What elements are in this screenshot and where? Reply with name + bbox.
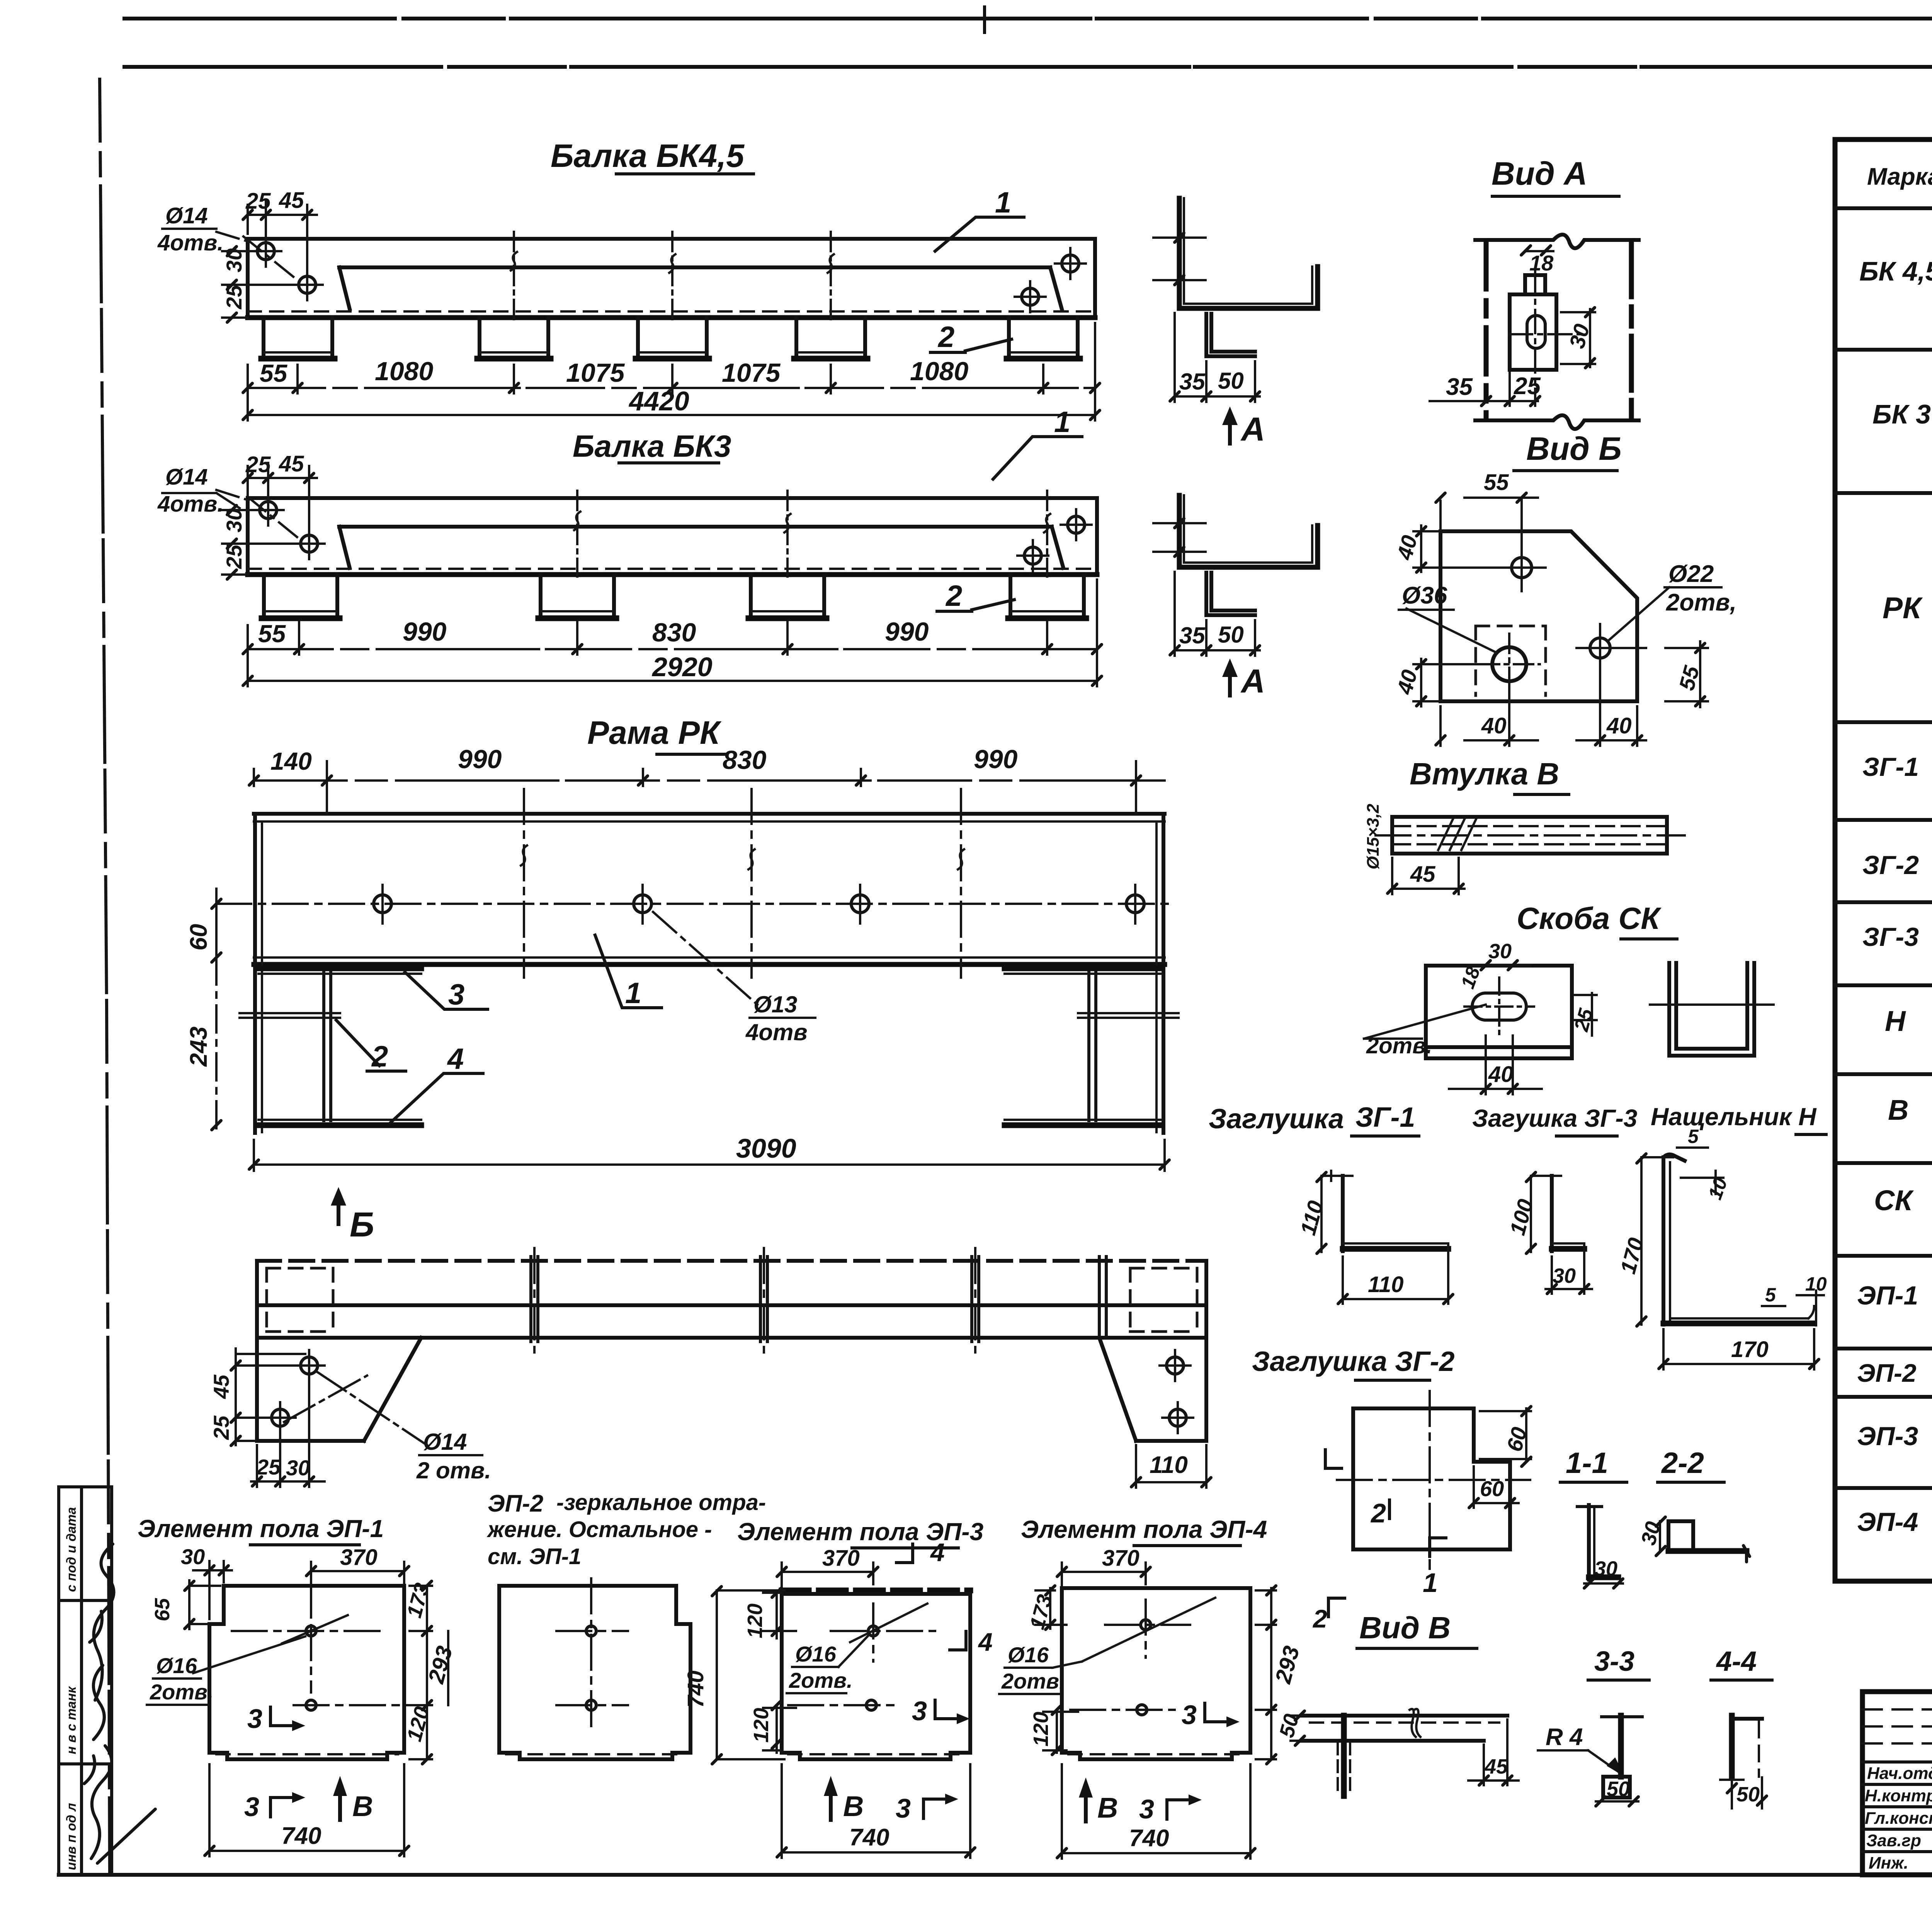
svg-text:ЭП-4: ЭП-4 [1857,1507,1918,1537]
svg-text:55: 55 [260,359,288,387]
svg-text:1080: 1080 [375,357,433,386]
RK dim chain 140 990 830 990 top [254,779,1165,782]
RK hole no.1 [374,895,391,913]
left stamp strip signature scrawl [94,1544,114,1700]
view A small tab above [1525,275,1545,294]
RK bottom right corner plate [1099,1338,1206,1441]
svg-text:3: 3 [244,1792,259,1822]
svg-text:2920: 2920 [651,652,713,682]
tab 2 pos.2 no.4 [796,318,865,356]
svg-text:25: 25 [222,285,246,310]
svg-text:2: 2 [1370,1498,1386,1528]
svg-text:Ø22: Ø22 [1668,561,1714,587]
RK label f13 4otv leader [653,912,757,1005]
view A top edge with break [1475,235,1639,248]
svg-text:ЭП-3: ЭП-3 [1857,1422,1918,1451]
svg-text:ЭП-2: ЭП-2 [488,1490,543,1517]
svg-text:Ø14: Ø14 [165,464,208,490]
RK bottom right inner dashed pocket [1130,1268,1197,1332]
svg-text:ЭП-1: ЭП-1 [1857,1281,1918,1310]
section 3-3 tee [1618,1716,1624,1777]
RK section arrow B [337,1197,340,1224]
svg-text:40: 40 [1606,713,1632,738]
channel tab Z below [1206,314,1255,356]
EP-3 hole upper [868,1626,878,1636]
sheet left border line [100,79,110,1875]
svg-text:45: 45 [1410,862,1435,887]
svg-text:Втулка В: Втулка В [1410,757,1559,791]
signature table row lines [1862,1762,1932,1852]
RK left splice tick [240,1013,340,1018]
cap ZG-2 section mark 2 left [1325,1450,1342,1468]
EP-4 right dim chain 293 [1256,1588,1276,1759]
svg-text:830: 830 [723,745,767,775]
view A bottom edge with break [1475,415,1639,429]
svg-text:В: В [352,1790,373,1822]
EP-4 hole upper [1141,1620,1151,1630]
RK dim 243 left [215,957,218,1130]
EP-3 hole lower [866,1700,876,1710]
svg-text:740: 740 [683,1670,708,1708]
cap ZG-1 angle [1341,1176,1345,1251]
svg-text:инв п од л: инв п од л [64,1803,79,1870]
view V hatch leg [1341,1716,1347,1796]
skoba SK slot [1472,993,1526,1020]
tab 2 pos.2 no.2 [480,318,548,356]
sleeve V hatch [1438,819,1476,850]
svg-text:Инж.: Инж. [1869,1854,1908,1872]
svg-text:35: 35 [1179,369,1206,395]
svg-text:Ø16: Ø16 [1008,1643,1049,1667]
svg-text:55: 55 [1484,470,1509,495]
sheet bottom inner line [59,1873,1932,1877]
cap ZG-3 angle [1550,1176,1554,1251]
svg-text:45: 45 [209,1374,233,1399]
RK vertical center ticks above top [327,789,1136,814]
svg-text:120: 120 [750,1708,773,1743]
svg-text:ЗГ-3: ЗГ-3 [1862,922,1919,952]
svg-text:Ø13: Ø13 [753,992,797,1017]
svg-text:5: 5 [1765,1284,1776,1306]
svg-text:Ø14: Ø14 [165,203,208,228]
view A center cross [1509,270,1586,390]
RK label 1 leader [595,935,662,1008]
RK hole no.2 [634,895,651,913]
RK right bottom plate pos.4 [1005,1122,1161,1128]
RK right splice tick [1078,1013,1179,1018]
RK rail bottom band [254,956,1165,959]
svg-text:25: 25 [1514,373,1541,400]
svg-text:35: 35 [1446,374,1473,400]
RK bottom left inner dashed pocket [267,1268,333,1332]
svg-text:2-2: 2-2 [1661,1447,1704,1480]
svg-text:740: 740 [1129,1825,1169,1852]
hole left upper [257,243,274,260]
dim 35 50 under section [1175,313,1260,402]
table header bottom line [1835,206,1932,210]
RK bottom leader f14 2otv [284,1372,427,1445]
svg-text:Гл.конст: Гл.конст [1865,1809,1932,1828]
svg-text:A: A [1240,663,1265,700]
svg-text:Н.контр: Н.контр [1865,1786,1932,1805]
view A slot [1527,325,1545,339]
view A dim 30 right [1561,309,1595,367]
svg-text:55: 55 [258,620,286,648]
svg-text:см. ЭП-1: см. ЭП-1 [488,1544,581,1569]
svg-text:СК: СК [1874,1184,1914,1216]
svg-text:50: 50 [1218,622,1244,648]
view A left flange bar [1484,243,1489,418]
dim 4420 [248,323,1095,420]
channel section of BK4,5 (view A) [1179,198,1318,308]
svg-text:с под и дата: с под и дата [64,1507,79,1592]
svg-text:Н: Н [1885,1005,1906,1037]
flashing N profile [1662,1157,1665,1325]
svg-text:БК 4,5: БК 4,5 [1859,256,1932,286]
svg-text:3: 3 [1182,1700,1197,1730]
beam BK4,5 web inner line [339,267,1062,309]
svg-text:50: 50 [1607,1777,1630,1801]
view B big hole f36 [1492,647,1526,681]
svg-text:830: 830 [652,618,696,647]
svg-text:Ø36: Ø36 [1402,582,1447,609]
svg-text:В: В [843,1790,864,1822]
RK label 3 leader [405,972,488,1009]
svg-text:50: 50 [1736,1783,1760,1806]
RK vertical chain line 2 with break [750,789,753,978]
svg-text:4: 4 [978,1628,993,1656]
left stamp strip date scrawl [84,1746,155,1863]
beam BK3 bottom flange [248,572,1097,577]
svg-text:30: 30 [1594,1557,1617,1580]
RK left column tube [324,970,331,1121]
svg-text:65: 65 [151,1598,174,1621]
svg-text:140: 140 [270,747,312,775]
BK3 dim 2920 [248,580,1097,686]
svg-text:Ø14: Ø14 [423,1429,467,1455]
hole leader diagonal [216,232,298,280]
svg-text:30: 30 [222,509,246,532]
EP-4 hole lower [1137,1705,1147,1715]
svg-text:990: 990 [458,745,502,774]
svg-text:2отв.: 2отв. [789,1668,853,1692]
svg-text:4: 4 [447,1043,464,1075]
view B leader f36 [1406,609,1497,653]
section 4-4 channel [1729,1716,1735,1777]
svg-text:-зеркальное отра-: -зеркальное отра- [556,1490,766,1515]
view B dim 40 left lower [1413,659,1492,706]
RK hole center chain line [216,903,1175,905]
RK dim 60 left [215,889,218,970]
svg-text:120: 120 [743,1604,767,1638]
svg-text:ЗГ-2: ЗГ-2 [1862,850,1919,880]
svg-text:110: 110 [1150,1452,1188,1478]
tab 2 pos.2 no.5 [1009,318,1078,356]
BK3 tab no.3 [751,575,824,616]
view B hole f22 [1590,638,1610,658]
svg-text:Элемент пола ЭП-3: Элемент пола ЭП-3 [737,1518,983,1546]
svg-text:3: 3 [247,1704,262,1734]
section 1-1 angle [1587,1505,1591,1580]
svg-text:1: 1 [625,977,641,1010]
BK3 section arrow A [1228,668,1232,696]
RK hole no.3 [851,895,869,913]
cap ZG-3 dim 100 [1531,1176,1561,1252]
svg-text:Марка: Марка [1867,163,1932,190]
BK3 tab no.1 [264,575,337,616]
svg-text:Ø16: Ø16 [156,1653,197,1678]
RK bottom left corner plate [257,1338,421,1441]
view V band [1301,1716,1507,1741]
svg-text:740: 740 [849,1824,889,1851]
svg-text:1: 1 [995,186,1011,219]
svg-text:Заглушка: Заглушка [1209,1104,1344,1134]
svg-text:Нач.отд.: Нач.отд. [1867,1764,1932,1783]
svg-text:4отв.: 4отв. [157,492,223,517]
svg-text:4отв.: 4отв. [157,230,223,255]
EP-2 hole lower [586,1700,596,1710]
skoba SK dim 25 right [1575,993,1597,1036]
svg-text:Элемент пола ЭП-4: Элемент пола ЭП-4 [1021,1515,1267,1543]
skoba SK plate [1426,966,1572,1058]
RK left top plate pos.3 [259,966,421,971]
svg-text:Б: Б [350,1206,374,1244]
EP-1 view arrow V [338,1787,342,1820]
BK3 hole leader diagonal [216,490,299,539]
svg-text:243: 243 [185,1027,212,1067]
view B dashed pocket [1476,626,1546,696]
tab 2 pos.2 no.1 [264,318,332,356]
svg-text:50: 50 [1218,368,1244,394]
svg-text:Элемент пола ЭП-1: Элемент пола ЭП-1 [138,1515,384,1543]
BK3 dim chain 55 990 830 990 [248,648,1097,650]
svg-text:4420: 4420 [628,386,689,416]
BK3 hole left lower [301,535,318,552]
svg-text:1080: 1080 [910,357,968,386]
svg-text:R 4: R 4 [1546,1724,1583,1750]
view A right flange bar [1629,243,1634,418]
hole right lower [1022,288,1039,305]
beam BK4,5 outline [248,239,1095,318]
svg-text:РК: РК [1883,591,1923,625]
RK vertical chain line 1 with break [523,789,525,978]
beam BK3 outline [248,498,1097,575]
view A inner plate [1510,294,1556,370]
svg-text:1-1: 1-1 [1566,1447,1608,1480]
RK vertical chain line 3 with break [960,789,962,978]
RK right column tube [1089,970,1096,1121]
RK right top plate pos.3 [1005,966,1161,971]
skoba SK U-profile [1669,963,1754,1056]
sleeve V body [1392,817,1667,854]
svg-text:4: 4 [930,1538,945,1566]
cap ZG-2 dim 60 vertical [1480,1408,1531,1462]
BK3 channel tab Z below [1206,573,1255,615]
svg-text:120: 120 [1029,1712,1053,1747]
EP-3 plate outline [782,1588,970,1594]
RK bottom weld ticks [531,1257,1106,1342]
svg-text:В: В [1097,1792,1118,1824]
view B leader f22 [1607,587,1669,641]
svg-text:170: 170 [1731,1337,1769,1362]
svg-text:Скоба СК: Скоба СК [1517,901,1662,935]
section 2-2 channel [1668,1521,1693,1551]
svg-text:40: 40 [1488,1062,1514,1087]
svg-text:Заглушка ЗГ-2: Заглушка ЗГ-2 [1252,1346,1455,1377]
RK bottom dim 110 right [1136,1445,1206,1488]
svg-text:25: 25 [245,189,271,214]
section 2-2 dim 30 [1659,1521,1661,1551]
view B plate outline [1440,531,1637,701]
cap ZG-1 dim 110 vertical [1321,1171,1352,1252]
RK right leg [1162,814,1165,1133]
svg-text:1: 1 [1054,406,1070,439]
svg-text:4отв: 4отв [745,1019,808,1045]
left stamp strip outline [59,1487,112,1875]
BK3 tab no.4 [1010,575,1084,616]
beam BK4,5 segment joint lines [514,232,831,319]
tab 2 pos.2 no.3 [638,318,707,356]
svg-text:Вид В: Вид В [1359,1611,1451,1645]
svg-text:2: 2 [945,580,962,612]
svg-text:990: 990 [403,617,447,646]
svg-text:ЗГ-1: ЗГ-1 [1862,752,1919,782]
EP-1 hole lower [306,1700,316,1710]
svg-text:Ø16: Ø16 [795,1642,837,1666]
svg-text:30: 30 [1488,940,1512,963]
svg-text:Ø15×3,2: Ø15×3,2 [1364,803,1383,869]
view B hole top [1512,558,1532,578]
svg-text:60: 60 [185,924,212,951]
view B dim 40 left upper [1413,526,1511,572]
RK bottom plate hole right upper [1167,1357,1184,1374]
svg-text:5: 5 [1688,1126,1699,1147]
svg-text:3: 3 [912,1696,927,1726]
svg-text:4-4: 4-4 [1716,1646,1757,1677]
RK bottom view right edge [1204,1261,1208,1441]
RK label 2 leader [336,1020,406,1071]
svg-text:2: 2 [371,1040,388,1073]
svg-text:3090: 3090 [736,1133,796,1163]
RK bottom plate hole left upper [301,1357,318,1374]
RK dim 3090 [254,1140,1165,1171]
svg-text:2отв.: 2отв. [150,1680,214,1704]
svg-text:Загушка ЗГ-3: Загушка ЗГ-3 [1472,1104,1637,1132]
svg-text:2: 2 [937,321,954,354]
svg-text:25: 25 [209,1415,233,1440]
EP-2 hole upper [586,1626,596,1636]
view V dim 50 left [1291,1716,1306,1741]
svg-text:110: 110 [1368,1272,1403,1297]
EP-1 hole upper [306,1626,316,1636]
EP-3 view arrow V [829,1787,833,1820]
RK top rail band [254,812,1165,816]
hole left lower [299,276,316,293]
RK bottom view left edge [255,1261,259,1441]
sheet outer top line [124,17,1932,20]
svg-text:2отв,: 2отв, [1666,589,1736,616]
RK bottom view band bottom line [257,1336,1206,1340]
RK hole no.4 [1126,895,1144,913]
beam BK4,5 bottom flange [248,315,1095,320]
svg-text:45: 45 [279,188,304,213]
EP-1 right dim chain 173 293 120 [410,1586,432,1759]
svg-text:30: 30 [181,1544,205,1569]
EP-1 plate outline [209,1586,404,1759]
svg-text:A: A [1240,411,1265,448]
svg-text:3: 3 [448,978,464,1011]
svg-text:990: 990 [885,617,929,646]
signature table dashed top rows [1862,1709,1932,1743]
beam BK3 segment joint lines [577,491,1047,577]
BK3 hole right lower [1024,547,1041,564]
svg-text:ЗГ-1: ЗГ-1 [1355,1102,1415,1133]
flashing N dim 10 top [1681,1171,1723,1194]
svg-text:740: 740 [281,1823,321,1849]
svg-text:2: 2 [1312,1604,1327,1633]
svg-text:370: 370 [822,1546,860,1571]
svg-text:35: 35 [1179,622,1206,648]
BK3 tab no.2 [541,575,614,616]
RK left bottom plate pos.4 [259,1122,421,1128]
EP-4 view arrow V [1084,1789,1088,1821]
svg-text:Вид Б: Вид Б [1526,430,1622,467]
RK left leg [253,814,257,1133]
svg-text:1075: 1075 [722,358,781,388]
RK bottom view band top dashed edge [257,1259,1206,1263]
svg-text:370: 370 [340,1545,378,1570]
svg-text:Балка БК4,5: Балка БК4,5 [551,138,745,174]
svg-text:Нащельник Н: Нащельник Н [1651,1103,1817,1131]
svg-text:3-3: 3-3 [1594,1646,1634,1677]
BK3 hole left upper [260,502,277,519]
BK3 dim 35 50 under section [1175,572,1260,656]
svg-text:Вид А: Вид А [1492,155,1587,192]
EP-1 leader f16 2otv [193,1636,305,1673]
RK bottom vertical chain lines [534,1248,975,1352]
svg-text:1075: 1075 [566,358,625,388]
view V break mark [1410,1709,1420,1737]
svg-text:1: 1 [1423,1568,1438,1598]
RK bottom plate hole left lower [272,1409,289,1426]
svg-text:Балка БК3: Балка БК3 [573,429,731,463]
view B dim 55 right [1665,641,1708,707]
svg-text:2отв.: 2отв. [1366,1033,1432,1058]
svg-text:370: 370 [1102,1546,1139,1571]
sheet inner top line [124,65,1932,69]
svg-text:Рама РК: Рама РК [587,714,722,751]
beam BK3 web inner line [339,527,1063,568]
svg-text:30: 30 [286,1456,310,1480]
cap ZG-2 center dashes [1337,1391,1530,1569]
svg-text:2отв.: 2отв. [1001,1669,1065,1693]
svg-text:3: 3 [1139,1794,1154,1824]
svg-text:25: 25 [256,1455,281,1479]
flashing N dim 170 vertical [1641,1157,1673,1325]
svg-text:60: 60 [1480,1476,1504,1501]
RK bottom dim 45 25 left [236,1354,305,1441]
svg-text:40: 40 [1481,713,1507,738]
beam BK4,5 bottom dashed line [248,310,1095,313]
svg-text:990: 990 [974,745,1018,774]
RK bottom view band mid line [257,1303,1206,1307]
EP-2 plate outline [499,1586,690,1759]
hole right upper [1062,255,1079,272]
RK bottom plate hole right lower [1169,1409,1186,1426]
RK label 4 leader [390,1073,483,1123]
table outer border [1835,139,1932,1581]
top registration tick [985,7,1932,80]
